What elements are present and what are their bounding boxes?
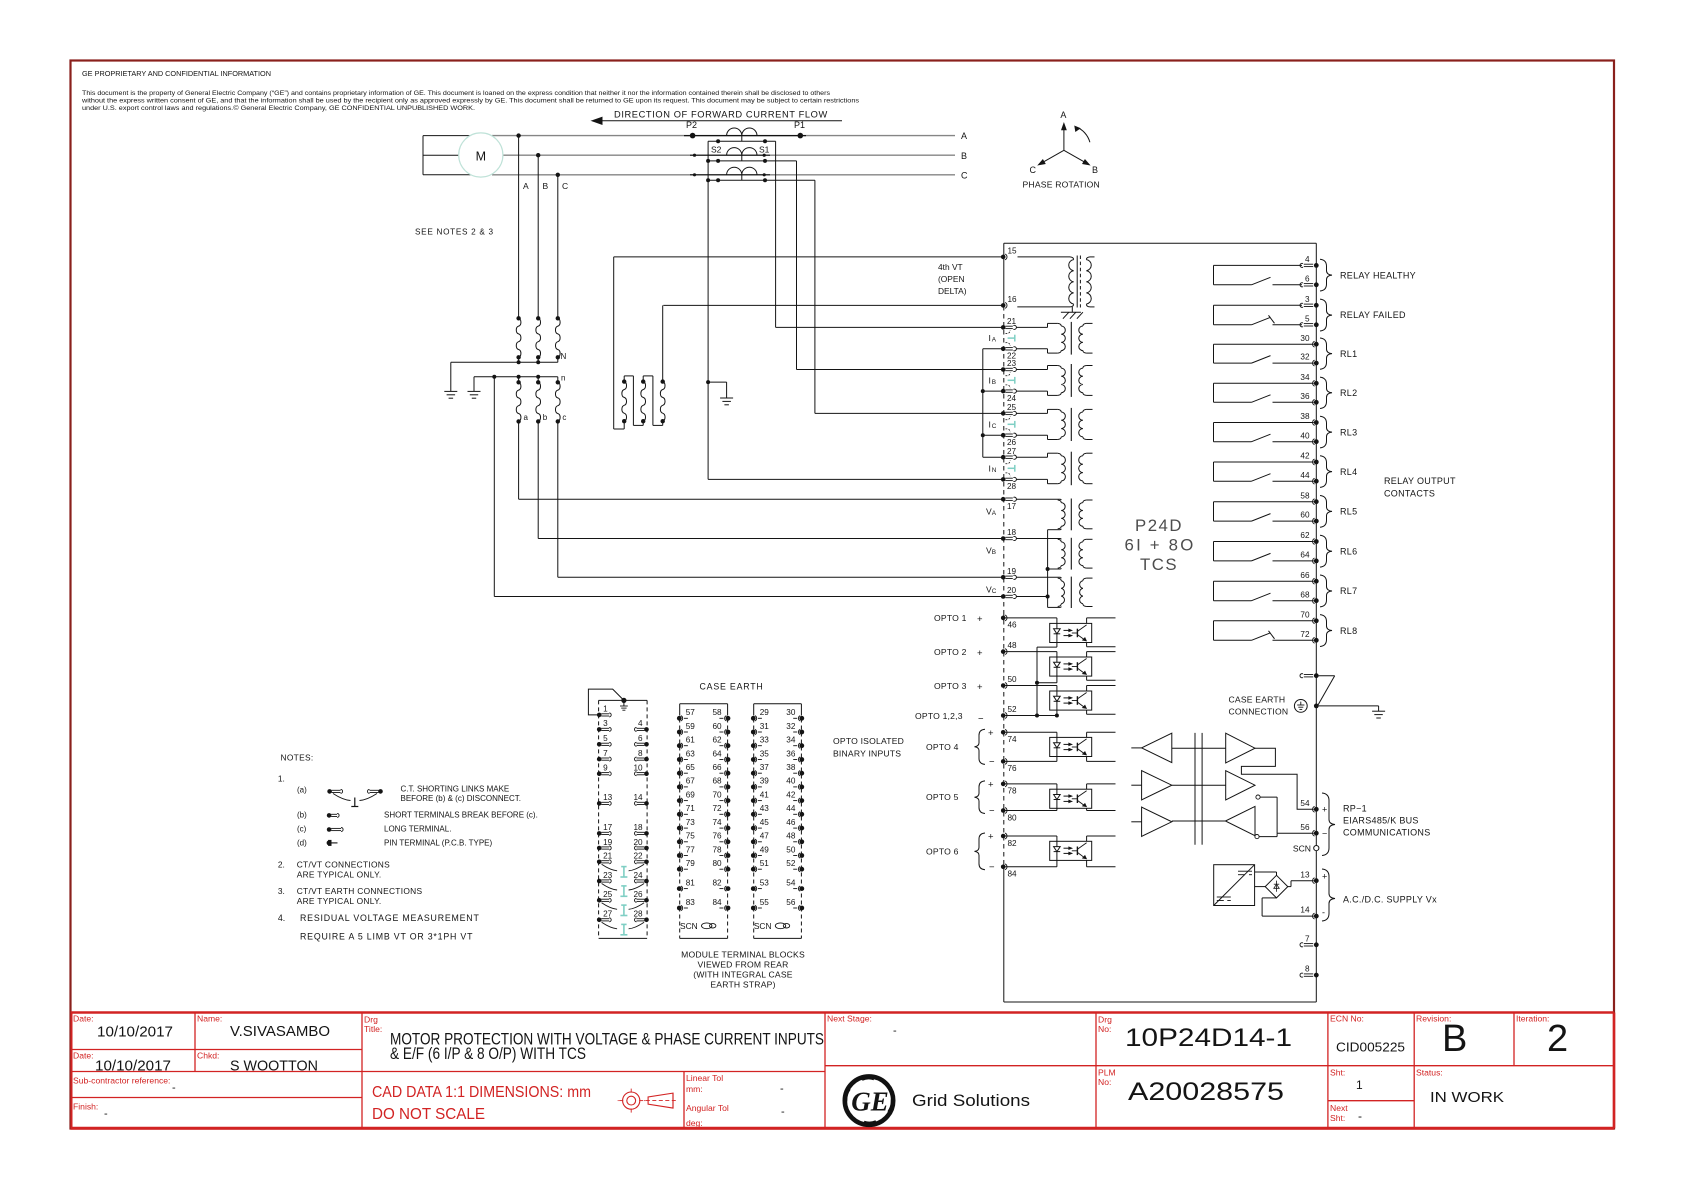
relay contact RL3 — [1214, 423, 1314, 442]
terminal 58 — [1300, 491, 1318, 504]
svg-text:(WITH INTEGRAL CASE: (WITH INTEGRAL CASE — [693, 970, 793, 980]
terminal 54 — [1300, 799, 1327, 815]
brace RL7 — [1320, 575, 1332, 607]
block 3 pin 31 — [751, 722, 769, 735]
svg-text:24: 24 — [633, 871, 643, 880]
svg-text:+: + — [977, 614, 983, 625]
terminal 16 — [1001, 295, 1017, 308]
svg-text:26: 26 — [1007, 438, 1017, 447]
svg-text:Sht:: Sht: — [1330, 1113, 1345, 1123]
svg-text:40: 40 — [1300, 431, 1310, 440]
terminal 78 — [1001, 781, 1017, 796]
svg-text:48: 48 — [1008, 641, 1018, 650]
svg-text:25: 25 — [603, 890, 613, 899]
svg-text:PLM: PLM — [1098, 1068, 1116, 1078]
svg-text:25: 25 — [1007, 403, 1017, 412]
svg-text:Date:: Date: — [73, 1051, 94, 1061]
relay case outline — [1004, 243, 1317, 1002]
svg-text:50: 50 — [1008, 675, 1018, 684]
block 3 pin 56 — [786, 898, 804, 911]
case earth label (blocks) — [700, 682, 764, 692]
note 1c symbol — [327, 827, 343, 832]
opto coupler 1 — [1050, 623, 1092, 642]
ecn no cell — [1330, 1014, 1405, 1055]
case earth jumper — [1318, 676, 1335, 706]
terminal 28 — [1001, 477, 1017, 491]
comms label — [1343, 804, 1431, 838]
svg-text:V.SIVASAMBO: V.SIVASAMBO — [230, 1024, 330, 1040]
wire anode opto 2 — [1006, 652, 1057, 657]
block 2 pin 81 — [677, 878, 695, 891]
block1 pin 7 — [597, 749, 611, 761]
name cell — [197, 1014, 330, 1041]
terminal 66 — [1300, 571, 1318, 584]
block1 case earth point — [620, 698, 628, 710]
block1 pin 25 — [597, 890, 613, 903]
label RELAY HEALTHY — [1340, 270, 1416, 280]
brace RELAY HEALTHY — [1320, 259, 1332, 291]
block 3 pin 50 — [786, 845, 804, 858]
block 2 pin 57 — [677, 708, 695, 721]
svg-text:56: 56 — [786, 898, 796, 907]
svg-text:36: 36 — [786, 749, 796, 758]
wire open delta to terminal 15 — [614, 257, 625, 429]
svg-text:CT/VT CONNECTIONS: CT/VT CONNECTIONS — [297, 859, 390, 869]
4th VT earth — [1061, 307, 1083, 319]
block 3 pin 39 — [751, 777, 769, 790]
svg-text:DO NOT SCALE: DO NOT SCALE — [372, 1106, 485, 1123]
block1 pin 5 — [597, 734, 611, 747]
svg-text:68: 68 — [1300, 590, 1310, 599]
svg-text:52: 52 — [1008, 705, 1018, 714]
block 3 pin 49 — [751, 845, 769, 858]
terminal 64 — [1300, 551, 1318, 564]
next sht cell — [1330, 1103, 1362, 1123]
relay contact RL8 — [1214, 621, 1314, 641]
svg-text:SCN: SCN — [680, 921, 698, 931]
svg-text:17: 17 — [603, 823, 613, 832]
svg-text:A.C./D.C. SUPPLY Vx: A.C./D.C. SUPPLY Vx — [1343, 895, 1437, 905]
block 3 pin 43 — [751, 804, 769, 817]
svg-text:82: 82 — [1008, 839, 1018, 848]
block 3 pin 55 — [751, 898, 769, 911]
iteration cell — [1516, 1014, 1568, 1061]
motor stator leads — [423, 136, 471, 175]
svg-text:67: 67 — [686, 777, 696, 786]
label RL1 — [1340, 349, 1357, 359]
CT S2 label — [711, 145, 722, 155]
voltage input transformer VB — [1016, 538, 1092, 570]
primary earth — [444, 362, 457, 398]
block1 pin 1 — [597, 705, 611, 718]
svg-text:This document is the property: This document is the property of General… — [82, 90, 831, 97]
svg-text:NOTES:: NOTES: — [281, 753, 314, 763]
block 2 pin 61 — [677, 736, 695, 749]
terminal 62 — [1300, 531, 1318, 544]
note 1a symbol — [327, 789, 383, 806]
block1 CT shorting link 2 — [602, 884, 645, 897]
svg-text:30: 30 — [1300, 334, 1310, 343]
block 3 pin 47 — [751, 832, 769, 845]
tap C wire — [556, 173, 560, 319]
svg-text:74: 74 — [1008, 735, 1018, 744]
brace RL1 — [1320, 338, 1332, 369]
bus C (gray) — [492, 174, 955, 176]
GE logo — [845, 1076, 893, 1124]
svg-text:OPTO 3: OPTO 3 — [934, 681, 967, 691]
svg-text:1: 1 — [1356, 1078, 1363, 1092]
4th VT label — [938, 262, 967, 296]
svg-text:LONG TERMINAL.: LONG TERMINAL. — [384, 825, 451, 834]
svg-text:n: n — [561, 374, 565, 383]
drg title cell — [364, 1015, 824, 1064]
comms buffer T1 — [1131, 733, 1172, 762]
svg-text:RP−1: RP−1 — [1343, 804, 1367, 814]
block 2 pin 67 — [677, 777, 695, 790]
svg-text:OPTO 1,2,3: OPTO 1,2,3 — [915, 711, 963, 721]
svg-text:BEFORE (b) & (c) DISCONNECT.: BEFORE (b) & (c) DISCONNECT. — [401, 794, 521, 803]
block1 pin 17 — [597, 823, 613, 836]
block 3 pin 40 — [786, 777, 804, 790]
block 2 pin 66 — [712, 763, 730, 776]
block 2 pin 68 — [712, 777, 730, 790]
relay contact RL5 — [1214, 502, 1314, 521]
CT phase A P1 terminal — [794, 120, 805, 138]
CT A S1 wire to terminal 21 — [776, 141, 1001, 327]
svg-text:6: 6 — [638, 734, 643, 743]
wire R2 to 56 — [1260, 797, 1314, 833]
svg-text:A: A — [1060, 110, 1066, 120]
IN input label — [989, 463, 997, 474]
svg-text:P24D: P24D — [1135, 516, 1183, 535]
wire terminal 16 to open delta — [663, 304, 1001, 306]
block 2 pin 64 — [712, 749, 730, 762]
svg-text:I: I — [989, 419, 991, 429]
wire common 22-24-26-27 — [981, 349, 1001, 457]
block 2 pin 69 — [677, 790, 695, 803]
block1 pin 4 — [635, 719, 649, 732]
svg-text:-: - — [1358, 1109, 1362, 1123]
relay contact RL2 — [1214, 383, 1314, 402]
block1 pin 19 — [597, 838, 613, 851]
block 2 pin 58 — [712, 708, 730, 721]
svg-text:CID005225: CID005225 — [1336, 1040, 1405, 1055]
motor M — [459, 133, 503, 177]
block 3 pin 32 — [786, 722, 804, 735]
svg-text:+: + — [988, 779, 994, 790]
svg-text:68: 68 — [712, 777, 722, 786]
svg-text:REQUIRE A 5 LIMB VT OR 3: REQUIRE A 5 LIMB VT OR 3*1PH VT — [300, 932, 473, 942]
block 3 SCN — [754, 921, 790, 931]
wire b to terminal 18 — [538, 421, 1001, 538]
svg-text:24: 24 — [1007, 394, 1017, 403]
block1 CT shorting link 1 — [602, 864, 645, 877]
svg-text:OPTO 2: OPTO 2 — [934, 647, 967, 657]
svg-text:4th VT: 4th VT — [938, 262, 963, 272]
note 1d symbol — [327, 840, 338, 846]
svg-text:23: 23 — [603, 871, 613, 880]
terminal 56 — [1300, 823, 1327, 839]
block1 pin 26 — [633, 890, 648, 903]
svg-text:72: 72 — [1300, 630, 1310, 639]
wire cathode opto 5 — [1006, 808, 1057, 810]
isolation barrier — [1195, 733, 1202, 845]
CT phase A secondary wire — [708, 139, 776, 143]
tap A wire — [516, 133, 520, 318]
svg-text:B: B — [1092, 165, 1098, 175]
svg-text:44: 44 — [1300, 471, 1310, 480]
block 3 pin 41 — [751, 790, 769, 803]
brace RL8 — [1320, 615, 1332, 647]
GE proprietary header text — [82, 69, 271, 78]
svg-text:OPTO 5: OPTO 5 — [926, 792, 959, 802]
svg-text:OPTO ISOLATED: OPTO ISOLATED — [833, 736, 904, 746]
svg-text:32: 32 — [786, 722, 796, 731]
opto 3 output wires — [1087, 686, 1116, 715]
svg-text:43: 43 — [760, 804, 770, 813]
VB input label — [986, 546, 996, 557]
svg-text:63: 63 — [686, 749, 696, 758]
svg-text:ECN No:: ECN No: — [1330, 1014, 1364, 1024]
svg-text:EARTH STRAP): EARTH STRAP) — [710, 980, 775, 990]
direction arrow — [592, 117, 842, 124]
svg-text:C: C — [992, 423, 997, 430]
terminal 32 — [1300, 353, 1318, 366]
svg-text:10/10/2017: 10/10/2017 — [97, 1025, 173, 1041]
svg-text:41: 41 — [760, 790, 770, 799]
svg-text:B: B — [961, 151, 967, 161]
svg-text:18: 18 — [1007, 528, 1017, 537]
svg-text:RL6: RL6 — [1340, 546, 1357, 556]
plm no cell — [1098, 1068, 1284, 1107]
comms buffer R2 — [1172, 771, 1255, 800]
terminal 20 — [1001, 586, 1017, 599]
svg-text:70: 70 — [1300, 610, 1310, 619]
svg-text:RELAY HEALTHY: RELAY HEALTHY — [1340, 270, 1416, 280]
svg-text:18: 18 — [633, 823, 643, 832]
comms buffer T3 — [1131, 807, 1172, 836]
CT B S1 wire to terminal 23 — [797, 161, 1002, 370]
opto 4 output wires — [1087, 732, 1116, 761]
svg-text:29: 29 — [760, 708, 770, 717]
grid solutions — [912, 1092, 1030, 1110]
block 2 pin 63 — [677, 749, 695, 762]
svg-text:6I + 8O: 6I + 8O — [1125, 536, 1196, 555]
svg-text:60: 60 — [712, 722, 722, 731]
svg-text:76: 76 — [712, 832, 722, 841]
svg-text:5: 5 — [1305, 314, 1310, 323]
svg-text:C: C — [992, 588, 997, 595]
block 3 pin 30 — [786, 708, 804, 721]
terminal block 2 outline — [680, 704, 728, 939]
CT phase C winding — [693, 167, 766, 180]
block 2 pin 72 — [712, 804, 730, 817]
svg-text:22: 22 — [633, 852, 643, 861]
svg-text:3.: 3. — [278, 886, 285, 896]
terminal 14 — [1300, 906, 1325, 919]
svg-text:8: 8 — [1305, 965, 1310, 974]
svg-text:32: 32 — [1300, 353, 1310, 362]
bus phase labels — [961, 131, 968, 181]
svg-text:10/10/2017: 10/10/2017 — [95, 1059, 171, 1075]
note 4 — [278, 913, 480, 942]
block 2 pin 78 — [712, 845, 730, 858]
svg-text:10P24D14-1: 10P24D14-1 — [1125, 1024, 1292, 1052]
svg-text:71: 71 — [686, 804, 696, 813]
terminal 52 — [1001, 705, 1017, 718]
svg-text:42: 42 — [1300, 452, 1310, 461]
current input transformer IA — [1016, 322, 1092, 355]
svg-text:OPTO 6: OPTO 6 — [926, 846, 959, 856]
note 1a text — [297, 785, 521, 804]
block 3 pin 33 — [751, 736, 769, 749]
svg-text:A: A — [523, 181, 529, 191]
svg-text:75: 75 — [686, 832, 696, 841]
svg-text:51: 51 — [760, 859, 770, 868]
terminal 22 — [1001, 347, 1017, 361]
4th VT transformer — [1017, 256, 1094, 308]
svg-text:c: c — [562, 413, 566, 422]
block 3 pin 35 — [751, 749, 769, 762]
VA input label — [986, 507, 997, 518]
svg-text:57: 57 — [686, 708, 696, 717]
relay contact RL4 — [1214, 462, 1314, 481]
svg-text:61: 61 — [686, 736, 696, 745]
block 2 pin 74 — [712, 818, 730, 831]
wire open delta to terminal 16 — [662, 305, 664, 381]
svg-text:a: a — [524, 413, 529, 422]
opto 5 output wires — [1087, 784, 1116, 811]
terminal 34 — [1300, 373, 1318, 386]
case earth stud — [1314, 704, 1379, 709]
svg-text:C: C — [961, 171, 968, 181]
svg-text:84: 84 — [712, 898, 722, 907]
svg-text:−: − — [989, 756, 995, 767]
svg-text:37: 37 — [760, 763, 770, 772]
block1 pin 20 — [633, 838, 648, 851]
CT S1 label — [759, 145, 770, 155]
wire n to terminal 20 — [494, 377, 1001, 597]
comms buffer R1 — [1172, 733, 1255, 763]
svg-text:36: 36 — [1300, 392, 1310, 401]
CT C S1 wire to terminal 25 — [815, 180, 1001, 413]
svg-text:Iteration:: Iteration: — [1516, 1014, 1549, 1024]
svg-text:80: 80 — [1008, 813, 1018, 822]
title block grid — [71, 1013, 1615, 1129]
svg-text:Sub-contractor reference:: Sub-contractor reference: — [73, 1076, 170, 1086]
current input transformer IN — [1016, 452, 1092, 486]
svg-text:1.: 1. — [278, 774, 285, 784]
svg-text:RL3: RL3 — [1340, 427, 1357, 437]
opto isolated binary inputs label — [833, 736, 904, 759]
svg-text:C: C — [1030, 165, 1037, 175]
brace RL2 — [1320, 377, 1332, 408]
revision cell — [1416, 1014, 1467, 1061]
block 3 pin 42 — [786, 790, 804, 803]
tap labels A B C — [523, 181, 568, 191]
svg-text:RELAY FAILED: RELAY FAILED — [1340, 310, 1406, 320]
svg-text:72: 72 — [712, 804, 722, 813]
SCN terminal — [1293, 844, 1319, 854]
svg-text:10: 10 — [633, 764, 643, 773]
svg-text:82: 82 — [712, 878, 722, 887]
svg-text:CT/VT EARTH CONNECTIONS: CT/VT EARTH CONNECTIONS — [297, 886, 423, 896]
GE proprietary paragraph — [81, 90, 860, 112]
brace RL4 — [1320, 456, 1332, 488]
R2 output bubble — [1256, 795, 1260, 799]
svg-text:−: − — [1322, 829, 1327, 839]
block1 pin 18 — [633, 823, 648, 836]
block 2 SCN — [680, 921, 716, 931]
phase rotation symbol — [1030, 110, 1099, 175]
svg-text:83: 83 — [686, 898, 696, 907]
block 2 pin 62 — [712, 736, 730, 749]
block 2 pin 84 — [712, 898, 730, 911]
opto coupler 5 — [1050, 789, 1092, 808]
svg-text:RL7: RL7 — [1340, 586, 1357, 596]
svg-text:CASE EARTH: CASE EARTH — [700, 682, 764, 692]
svg-text:without the express written co: without the express written consent of G… — [81, 98, 860, 105]
linear tol cell — [686, 1073, 784, 1095]
comms brace — [1322, 793, 1335, 856]
block 3 pin 29 — [751, 708, 769, 721]
svg-text:34: 34 — [786, 736, 796, 745]
svg-text:P1: P1 — [794, 120, 805, 130]
terminal 18 — [1001, 528, 1017, 541]
SEE NOTES 2 & 3 — [415, 228, 494, 237]
svg-text:MODULE TERMINAL BLOCKS: MODULE TERMINAL BLOCKS — [681, 950, 805, 960]
terminal 6 — [1300, 274, 1319, 287]
svg-text:38: 38 — [1300, 412, 1310, 421]
block1 pin 13 — [597, 793, 613, 806]
svg-text:76: 76 — [1008, 764, 1018, 773]
svg-text:CONTACTS: CONTACTS — [1384, 489, 1435, 499]
svg-text:58: 58 — [1300, 491, 1310, 500]
svg-text:27: 27 — [603, 910, 613, 919]
VC input label — [986, 585, 997, 596]
svg-text:b: b — [543, 413, 548, 422]
opto 6 output wires — [1087, 836, 1116, 867]
wire a to terminal 17 — [519, 421, 1001, 499]
svg-text:-: - — [893, 1025, 897, 1037]
block1 pin 9 — [597, 764, 611, 777]
terminal 36 — [1300, 392, 1318, 405]
svg-text:I: I — [989, 375, 991, 385]
svg-text:58: 58 — [712, 708, 722, 717]
svg-text:3: 3 — [603, 719, 608, 728]
svg-text:S WOOTTON: S WOOTTON — [230, 1059, 318, 1075]
date cell — [73, 1014, 173, 1041]
OPTO 3 label — [934, 681, 983, 693]
svg-text:60: 60 — [1300, 511, 1310, 520]
svg-text:M: M — [476, 150, 486, 164]
OPTO 5 label — [926, 779, 995, 816]
terminal 82 — [1001, 833, 1017, 848]
block 3 pin 54 — [786, 878, 804, 891]
block 3 pin 34 — [786, 736, 804, 749]
svg-text:OPTO 4: OPTO 4 — [926, 742, 959, 752]
wire anode opto 1 — [1006, 618, 1057, 624]
svg-text:7: 7 — [603, 749, 608, 758]
svg-text:19: 19 — [1007, 567, 1017, 576]
current input transformer IB — [1016, 364, 1092, 397]
svg-text:46: 46 — [786, 818, 796, 827]
svg-text:ARE TYPICAL ONLY.: ARE TYPICAL ONLY. — [297, 869, 382, 879]
svg-text:79: 79 — [686, 859, 696, 868]
terminal 13 — [1300, 870, 1327, 883]
terminal 74 — [1001, 729, 1017, 744]
svg-text:14: 14 — [1300, 906, 1310, 915]
